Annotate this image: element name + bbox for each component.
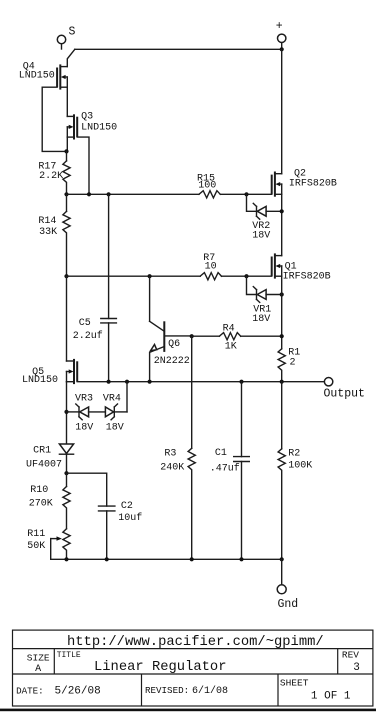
svg-text:REV: REV: [342, 649, 359, 660]
wire R15 to Q2 gate: [220, 193, 271, 195]
wire bottom rail: [51, 558, 282, 560]
sheet bottom border: [0, 709, 376, 712]
wire C2 branch: [67, 473, 107, 506]
capacitor C1: [210, 448, 250, 559]
node C1 riser: [239, 380, 243, 384]
resistor R7: [200, 253, 221, 280]
svg-text:LND150: LND150: [81, 123, 117, 134]
svg-text:VR4: VR4: [103, 394, 121, 405]
node R17/R14 row: [64, 192, 68, 196]
svg-text:R2: R2: [288, 449, 300, 460]
svg-text:2.2uf: 2.2uf: [73, 330, 103, 342]
node R17 top: [64, 149, 68, 153]
node R3 bottom: [190, 557, 194, 561]
resistor R14: [38, 194, 70, 276]
terminal Output: [324, 378, 365, 401]
node C5 riser on row: [107, 192, 111, 196]
svg-text:Gnd: Gnd: [278, 598, 299, 611]
wire Q1 source down: [281, 276, 283, 349]
wire diagonal to Q4 drain: [67, 49, 75, 66]
svg-text:2N2222: 2N2222: [154, 356, 190, 367]
svg-text:UF4007: UF4007: [26, 459, 62, 470]
svg-text:18V: 18V: [252, 231, 270, 242]
svg-text:LND150: LND150: [19, 71, 55, 82]
svg-text:10uf: 10uf: [118, 512, 142, 524]
resistor R3: [160, 448, 195, 559]
wire Q3 gate riser: [77, 137, 89, 194]
wire R7 to Q1 gate: [222, 275, 272, 277]
node VR2 anode: [280, 209, 284, 213]
transistor Q6: [150, 276, 192, 382]
wire row y194 to R15: [67, 193, 200, 195]
svg-text:18V: 18V: [252, 314, 270, 325]
svg-text:C1: C1: [215, 448, 227, 459]
node VR3 branch: [64, 410, 68, 414]
svg-text:R10: R10: [30, 485, 48, 496]
svg-text:18V: 18V: [75, 423, 93, 434]
wire Q3 source down to node: [66, 137, 68, 151]
svg-text:2: 2: [290, 357, 296, 368]
transistor Q2: [272, 168, 337, 196]
wire base node to R4: [192, 335, 220, 337]
svg-text:R11: R11: [27, 529, 45, 540]
node C2 bottom: [105, 557, 109, 561]
svg-text:1 OF 1: 1 OF 1: [311, 691, 351, 703]
resistor R15: [197, 173, 220, 198]
title block frame: [13, 630, 373, 706]
svg-text:Linear Regulator: Linear Regulator: [94, 659, 226, 675]
svg-text:.47uf: .47uf: [210, 462, 240, 474]
wire C1 riser: [241, 382, 243, 457]
terminal Gnd: [277, 559, 298, 611]
svg-text:SIZE: SIZE: [27, 652, 50, 663]
node R14 bottom row: [64, 274, 68, 278]
resistor R4: [219, 324, 240, 353]
svg-text:VR3: VR3: [75, 394, 93, 405]
zener VR2: [247, 194, 282, 241]
wire + rail down to Q2 drain: [281, 49, 283, 173]
node VR2 riser: [244, 192, 248, 196]
svg-text:10: 10: [205, 261, 217, 272]
terminal S: [57, 26, 75, 49]
wire output row: [77, 381, 324, 383]
svg-text:http://www.pacifier.com/~gpimm: http://www.pacifier.com/~gpimm/: [67, 634, 324, 650]
wire Q4 gate to node R17 top: [42, 87, 66, 151]
wire Q4 source to Q3 drain: [66, 87, 68, 116]
capacitor C5: [73, 318, 117, 382]
transistor Q1: [272, 253, 331, 282]
resistor R10: [29, 473, 70, 529]
svg-text:Q3: Q3: [81, 111, 93, 122]
svg-text:270K: 270K: [29, 498, 53, 509]
svg-text:+: +: [276, 20, 283, 33]
svg-text:Q6: Q6: [168, 339, 180, 350]
wire top rail: [75, 48, 282, 50]
resistor R17: [38, 151, 70, 194]
svg-text:REVISED:: REVISED:: [145, 685, 189, 696]
terminal +: [276, 20, 286, 49]
wire R4 to right column: [241, 335, 282, 337]
svg-text:18V: 18V: [106, 423, 124, 434]
svg-text:100K: 100K: [288, 461, 312, 472]
svg-text:R3: R3: [164, 448, 176, 459]
node VR1 riser: [244, 274, 248, 278]
zener VR1: [247, 276, 282, 325]
svg-text:R4: R4: [223, 324, 235, 335]
svg-text:Output: Output: [324, 388, 365, 401]
node C1 bottom: [239, 557, 243, 561]
transistor Q5: [22, 276, 77, 386]
node Q6 emitter: [148, 380, 152, 384]
node Q6 collector on row: [148, 274, 152, 278]
wire Q2 source to Q1 drain: [281, 194, 283, 255]
svg-text:3: 3: [353, 662, 360, 674]
svg-text:SHEET: SHEET: [280, 678, 309, 689]
svg-text:IRFS820B: IRFS820B: [289, 179, 337, 190]
svg-text:1K: 1K: [225, 341, 237, 352]
wire R3 riser: [191, 336, 193, 448]
svg-text:TITLE: TITLE: [57, 651, 81, 660]
node R11 bottom: [64, 557, 68, 561]
node R2 bottom / Gnd: [280, 557, 284, 561]
capacitor C2: [99, 501, 143, 559]
wire row y276 to R7: [67, 275, 201, 277]
svg-text:240K: 240K: [160, 462, 184, 473]
svg-text:A: A: [35, 664, 41, 675]
svg-text:C2: C2: [121, 501, 133, 512]
diode CR1: [26, 444, 74, 473]
resistor R2: [278, 382, 312, 560]
svg-text:5/26/08: 5/26/08: [55, 686, 101, 698]
node + rail junction: [280, 47, 284, 51]
transistor Q4: [19, 61, 68, 89]
node Q6 base / R4 / R3: [190, 334, 194, 338]
potentiometer R11: [27, 529, 70, 560]
svg-text:DATE:: DATE:: [16, 686, 44, 697]
svg-text:S: S: [69, 26, 76, 39]
node R4 right: [280, 334, 284, 338]
svg-text:100: 100: [198, 181, 216, 192]
node VR1 anode: [280, 292, 284, 296]
zener VR3: [67, 394, 106, 434]
resistor R1: [278, 348, 300, 382]
zener VR4: [103, 394, 127, 434]
node C5 bottom: [107, 380, 111, 384]
wire VR4 riser to output row: [126, 382, 128, 412]
svg-text:2.2K: 2.2K: [39, 171, 63, 182]
svg-text:6/1/08: 6/1/08: [192, 685, 228, 697]
svg-text:50K: 50K: [27, 541, 45, 552]
wire C5 riser: [108, 194, 110, 318]
svg-text:C5: C5: [79, 318, 91, 329]
svg-text:33K: 33K: [39, 227, 57, 238]
node Q3 gate riser on row: [87, 192, 91, 196]
svg-text:IRFS820B: IRFS820B: [283, 272, 331, 283]
svg-text:CR1: CR1: [33, 446, 51, 457]
node CR1/R10/C2: [64, 471, 68, 475]
wire Q5 source down: [66, 382, 68, 444]
node R1/R2 junction: [280, 380, 284, 384]
node VR4 riser: [125, 380, 129, 384]
transistor Q3: [67, 111, 117, 139]
svg-text:LND150: LND150: [22, 375, 58, 386]
svg-text:R14: R14: [38, 216, 56, 227]
